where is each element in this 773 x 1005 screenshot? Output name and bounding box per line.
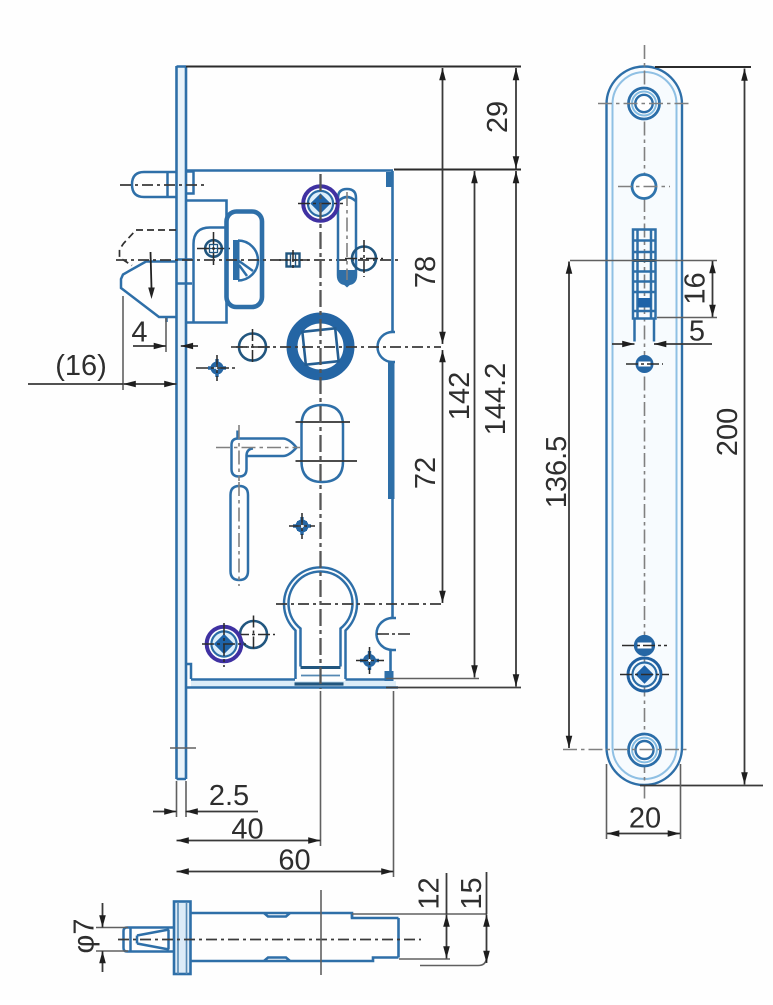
right edge cutout semicircle at cylinder xyxy=(377,618,397,650)
top screw S1 xyxy=(298,186,343,221)
svg-text:29: 29 xyxy=(482,101,514,133)
small screw F4 xyxy=(196,355,238,381)
cylinder bottom bar1 xyxy=(301,666,341,669)
right view ext top 200 xyxy=(655,66,751,68)
latch shank through plate xyxy=(177,260,193,284)
circle C1 xyxy=(231,329,273,365)
side view latch bolt xyxy=(124,928,175,952)
top screw hole H1 xyxy=(598,88,690,119)
ext line faceplate top xyxy=(186,66,521,68)
main latch bolt solid xyxy=(121,262,176,323)
svg-text:20: 20 xyxy=(629,803,661,835)
latch housing rect xyxy=(187,201,227,323)
spindle hub xyxy=(292,318,349,375)
right view ext bottom 200 xyxy=(640,785,763,787)
crosshair screw A xyxy=(197,232,230,265)
dim 4 xyxy=(131,317,198,353)
faceplate edge view xyxy=(177,66,187,779)
svg-text:142: 142 xyxy=(444,372,476,420)
svg-text:40: 40 xyxy=(231,814,263,846)
aux latch tail xyxy=(187,172,194,194)
side view top notch xyxy=(264,913,290,917)
side view case bottom edge xyxy=(191,958,399,962)
latch slot neck xyxy=(635,319,655,342)
euro cylinder inner xyxy=(288,572,352,667)
circle C2 xyxy=(237,616,275,652)
spring slot filled tip xyxy=(339,270,355,283)
faceplate bottom ext lines xyxy=(176,781,178,817)
case right bottom tab xyxy=(385,671,394,686)
small fastener F1 xyxy=(279,250,309,271)
ext line case flange 144.2 xyxy=(386,687,521,689)
obround O1 tick bottom xyxy=(296,460,358,462)
spindle horizontal centerline xyxy=(236,346,441,348)
side view plate inner lines xyxy=(178,902,187,974)
dim 16 right xyxy=(680,261,713,317)
side view latch inner xyxy=(131,928,170,951)
aux latch centerline xyxy=(120,184,205,186)
long slot centerline xyxy=(238,482,240,586)
svg-text:12: 12 xyxy=(414,877,446,909)
euro cylinder outer xyxy=(284,567,357,679)
cylinder bottom bar2 xyxy=(301,675,340,677)
purple screw S2 xyxy=(202,623,246,667)
svg-text:2.5: 2.5 xyxy=(209,780,249,812)
dim 136.5 xyxy=(541,262,573,749)
cutout R2 crosshair xyxy=(377,633,413,635)
dim 5 xyxy=(612,316,712,348)
hole H2 xyxy=(618,175,670,199)
cylinder bottom bar3 xyxy=(295,682,344,685)
crosshair circle B xyxy=(345,240,383,277)
slotted screw H4 xyxy=(622,636,667,655)
follower bracket xyxy=(227,212,263,308)
main vertical centerline xyxy=(319,174,321,689)
faceplate front inner outline xyxy=(613,72,677,779)
spring slot stadium xyxy=(338,189,356,284)
side view spindle line xyxy=(320,890,322,975)
aux latch bullet xyxy=(132,172,176,197)
side view case right edge xyxy=(397,918,400,958)
ext line case bottom 142 xyxy=(386,678,479,680)
small filled circle H3 xyxy=(626,356,663,372)
dim 2.5 xyxy=(153,780,258,812)
follower half disc bar xyxy=(233,240,240,280)
bottom hole H5 xyxy=(563,734,688,766)
dim 78 xyxy=(442,68,444,344)
svg-text:15: 15 xyxy=(456,877,488,909)
latch centerline xyxy=(116,259,398,261)
case right edge upper xyxy=(391,171,394,332)
latch slot xyxy=(633,230,656,319)
case bottom flange band xyxy=(191,681,396,687)
housing inner rounded shape xyxy=(194,228,227,323)
dim 142 xyxy=(474,171,476,678)
side view bottom notch xyxy=(264,958,290,962)
crosshead screw S3 xyxy=(620,658,669,691)
svg-text:(16): (16) xyxy=(55,350,107,382)
spindle square xyxy=(302,328,338,364)
svg-text:4: 4 xyxy=(131,317,147,349)
L lever centerlines xyxy=(216,447,300,449)
obround O1 tick top xyxy=(296,421,351,423)
dim 12 xyxy=(414,873,447,959)
L lever xyxy=(232,431,297,477)
latch reversal arrow xyxy=(151,252,152,288)
side view plate fill xyxy=(174,902,191,975)
long slot O2 xyxy=(231,486,249,580)
svg-text:60: 60 xyxy=(278,845,310,877)
faceplate strip fill xyxy=(178,67,185,778)
side view centerline xyxy=(118,939,421,941)
dim 200 xyxy=(712,69,745,785)
follower half disc xyxy=(238,241,258,281)
case right edge lower xyxy=(391,499,394,618)
case bottom flange lip xyxy=(186,686,398,689)
svg-text:5: 5 xyxy=(689,316,705,348)
obround O1 xyxy=(302,405,344,482)
small screw F2 xyxy=(289,513,315,539)
case right top tab xyxy=(386,172,394,187)
small screw F3 xyxy=(356,647,384,674)
dim 20 xyxy=(607,803,680,835)
side view case top edge xyxy=(191,913,399,918)
ext lines 12 15 top xyxy=(352,913,487,915)
side view inner vertical xyxy=(351,913,354,918)
faceplate vertical centerline xyxy=(644,45,646,800)
faceplate front outer outline xyxy=(607,67,683,786)
ext line 15 bottom xyxy=(420,957,487,966)
dim 40 xyxy=(177,814,321,846)
dim (16) xyxy=(28,296,177,390)
cylinder horizontal centerline xyxy=(276,603,441,605)
faceplate hole tick xyxy=(170,747,196,749)
dim 29 xyxy=(515,68,517,169)
dim 15 xyxy=(456,872,488,963)
case top edge xyxy=(186,169,393,172)
case bottom edge xyxy=(191,678,393,681)
dim 72 xyxy=(442,350,444,603)
case right edge below cutout xyxy=(389,650,392,671)
svg-text:200: 200 xyxy=(712,408,744,456)
svg-text:136.5: 136.5 xyxy=(541,436,573,509)
dim 144.2 xyxy=(515,171,517,687)
dim 60 xyxy=(177,845,394,877)
svg-text:78: 78 xyxy=(410,256,442,288)
svg-text:144.2: 144.2 xyxy=(480,363,512,436)
case right edge thick bar xyxy=(388,362,395,499)
ext line 12 bottom xyxy=(399,958,450,960)
ext line case top xyxy=(394,169,521,171)
right edge cutout semicircle at spindle xyxy=(378,332,396,362)
svg-text:72: 72 xyxy=(410,457,442,489)
dim 20 ext lines xyxy=(606,764,608,839)
case bottom left step xyxy=(186,664,191,679)
main latch bolt extended dashed xyxy=(120,230,177,266)
right view ext latch center xyxy=(570,260,717,262)
svg-text:φ7: φ7 xyxy=(69,919,101,954)
spring slot centerline xyxy=(346,192,348,280)
ext line spindle down xyxy=(320,691,322,846)
right view ext slot bottom xyxy=(657,317,717,319)
spring slot inner arc xyxy=(339,197,356,201)
dim phi7 xyxy=(69,903,129,972)
ext line case right down xyxy=(393,691,395,877)
svg-text:16: 16 xyxy=(680,272,712,304)
side view faceplate xyxy=(174,902,191,975)
